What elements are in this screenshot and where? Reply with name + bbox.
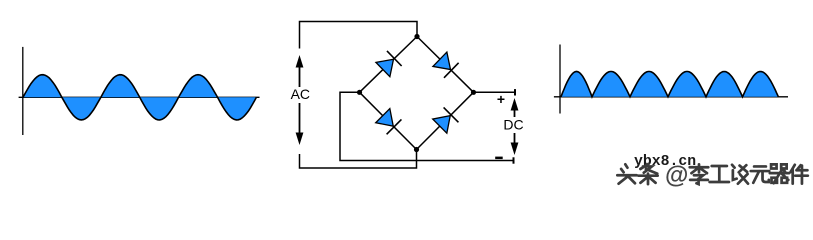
char 工	[710, 166, 729, 182]
wire: AC source bottom wire to bridge bottom node	[300, 150, 417, 169]
char 器	[770, 164, 789, 183]
wire: right node to DC plus terminal	[474, 91, 516, 93]
bridge arm: left node to top node	[360, 37, 418, 93]
diode D1 (left->top arm, pointing NE)	[376, 51, 402, 77]
terminal tick: plus output	[514, 89, 516, 95]
AC input waveform axes: horizontal axis	[19, 96, 260, 98]
DC double arrow (up head)	[511, 98, 519, 117]
node: bridge bottom junction	[414, 147, 419, 152]
diode D4 (bottom->right arm, pointing NE)	[432, 107, 458, 133]
svg-text:DC: DC	[503, 117, 523, 133]
AC input waveform axes: vertical axis	[22, 47, 24, 135]
label −	[495, 157, 503, 160]
svg-text:AC: AC	[291, 86, 310, 102]
char 李	[690, 164, 708, 184]
bridge arm: bottom node to right node	[417, 92, 474, 149]
bridge arm: top node to right node	[417, 37, 474, 93]
AC sine waveform (3 cycles, blue fill)	[23, 75, 256, 120]
AC source double arrow (down head)	[296, 103, 304, 145]
DC rectified waveform (6 humps, blue fill)	[561, 72, 778, 97]
wire: left node to DC minus line	[340, 92, 514, 160]
DC output waveform: horizontal axis	[554, 96, 788, 98]
char 条	[638, 164, 657, 184]
diode D3 (left->bottom arm, pointing SE)	[375, 108, 401, 134]
char 头	[617, 164, 636, 183]
node: bridge right junction	[471, 90, 476, 95]
char 件	[791, 165, 808, 184]
node: bridge left junction	[357, 90, 362, 95]
svg-text:@: @	[665, 162, 688, 189]
DC double arrow (down head)	[511, 133, 519, 155]
char 谈	[732, 165, 748, 184]
DC output waveform: vertical axis	[559, 45, 561, 114]
char 元	[751, 166, 769, 182]
svg-text:+: +	[497, 91, 505, 107]
AC source double arrow (up head)	[296, 55, 304, 87]
terminal tick: minus output	[513, 157, 515, 163]
diode D2 (top->right arm, pointing SE)	[433, 52, 459, 78]
node: bridge top junction	[414, 34, 419, 39]
wire: AC source top wire to bridge top node	[300, 22, 418, 49]
bridge arm: left node to bottom node	[360, 92, 417, 149]
watermark 头条@李工谈元器件 (drawn strokes)	[617, 164, 807, 184]
